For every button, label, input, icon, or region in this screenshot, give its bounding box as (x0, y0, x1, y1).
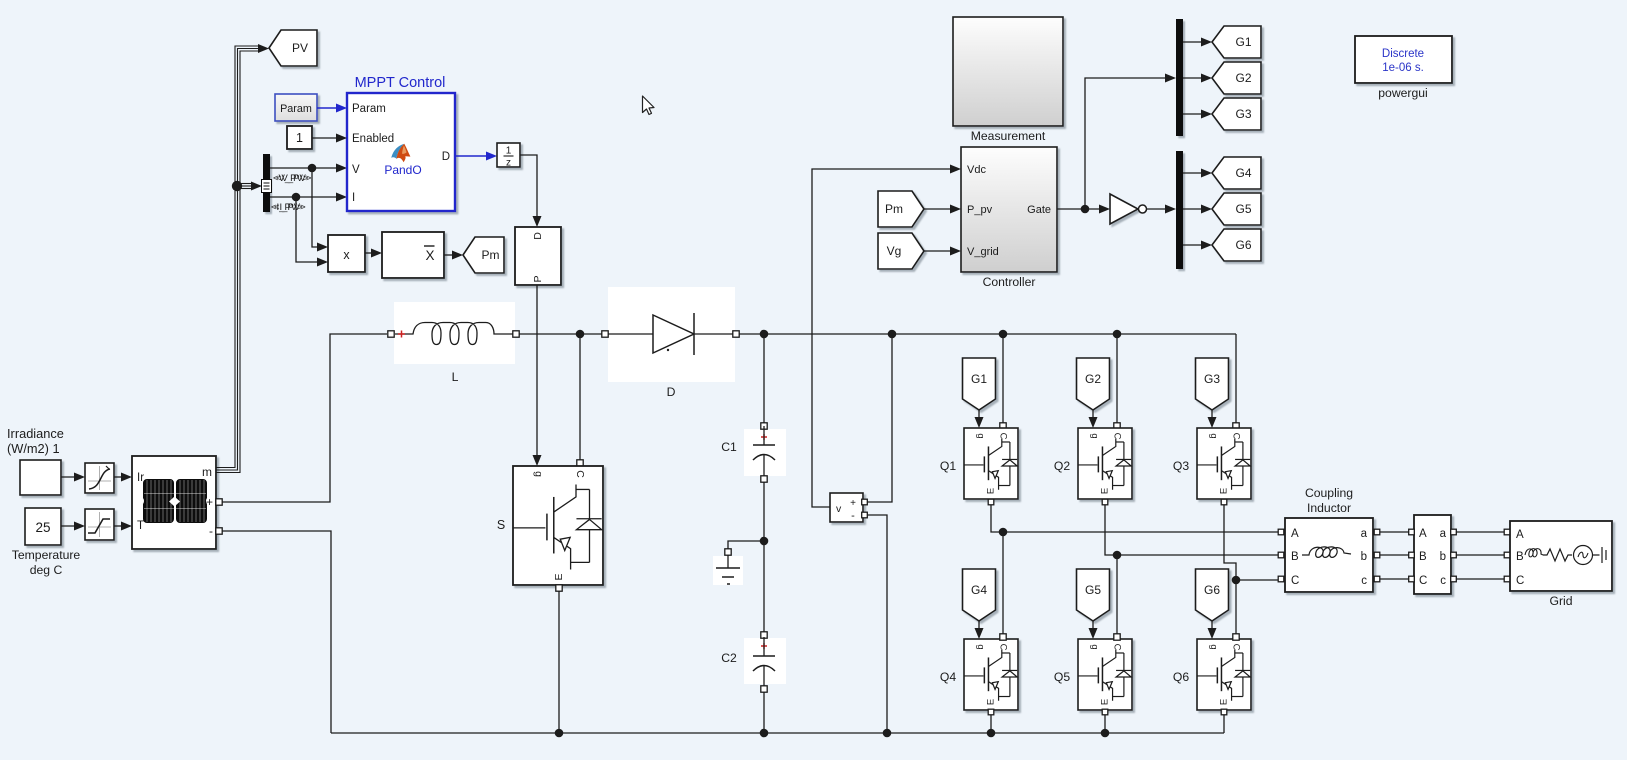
svg-text:E: E (986, 699, 997, 705)
svg-text:+: + (850, 498, 856, 509)
transistor Q4 (964, 639, 1018, 710)
svg-text:1: 1 (296, 131, 303, 145)
mean block (382, 232, 444, 278)
subsystem MPPT Control (347, 93, 455, 211)
wire Q6 E to rail (1223, 715, 1225, 733)
wire DC top rail (739, 333, 1236, 335)
svg-text:C: C (574, 470, 586, 478)
port Q1 E (988, 499, 994, 505)
unit delay 1/z (497, 143, 520, 169)
svg-text:-: - (851, 510, 855, 522)
svg-text:G6: G6 (1235, 238, 1251, 252)
transistor Q6 (1197, 639, 1251, 710)
bus selector (262, 154, 272, 212)
wire (61, 473, 85, 482)
svg-text:G3: G3 (1204, 372, 1220, 386)
wire Q5 E to rail (1104, 715, 1106, 733)
svg-text:MPPT Control: MPPT Control (355, 75, 446, 91)
svg-text:powergui: powergui (1378, 86, 1427, 100)
subsystem Controller (961, 147, 1057, 272)
wire boost E to bottom rail (558, 591, 560, 733)
svg-text:+: + (206, 495, 213, 509)
wire phase A (991, 505, 1278, 532)
goto tag G1 (1212, 26, 1261, 58)
port boost E (556, 585, 562, 591)
wire coupling a to meas A (1380, 531, 1409, 533)
svg-text:c: c (1361, 575, 1367, 587)
svg-text:C: C (998, 433, 1009, 440)
svg-text:C: C (1231, 433, 1242, 440)
wire NOT to lower demux (1147, 205, 1177, 214)
wire gate to upper demux (1085, 74, 1176, 210)
label Q3 (1173, 459, 1189, 473)
svg-text:A: A (1291, 528, 1299, 540)
label MPPT Control (355, 75, 446, 91)
label D (667, 385, 676, 399)
subsystem D P (515, 227, 561, 285)
svg-text:E: E (1219, 488, 1230, 494)
svg-text:P: P (532, 275, 544, 282)
wire D to unit delay (blue) (455, 152, 497, 161)
node bottom Q5 (1101, 729, 1110, 738)
svg-text:25: 25 (35, 520, 50, 535)
svg-text:Vg: Vg (887, 244, 902, 258)
svg-text:Inductor: Inductor (1307, 501, 1351, 515)
wire rail to C1 (763, 334, 765, 423)
wire G2 to gate (1089, 410, 1098, 428)
svg-text:Q2: Q2 (1054, 459, 1070, 473)
svg-text:Measurement: Measurement (971, 129, 1046, 143)
capacitor C2 (744, 632, 786, 692)
svg-text:Pm: Pm (482, 248, 500, 262)
label Q5 (1054, 670, 1070, 684)
label Grid (1549, 594, 1572, 608)
label C1 (721, 440, 737, 454)
label Q2 (1054, 459, 1070, 473)
from tag G4 (963, 569, 996, 621)
node on I wire (292, 193, 301, 202)
constant block Irradiance (20, 460, 61, 495)
wire G6 to gate (1208, 621, 1217, 639)
svg-text:L: L (452, 370, 459, 384)
svg-text:Enabled: Enabled (352, 133, 394, 145)
wire rail to Q1 C (1000, 334, 1006, 429)
from tag G5 (1077, 569, 1110, 621)
svg-text:g: g (975, 433, 986, 438)
svg-text:Pm: Pm (885, 202, 903, 216)
node bottom S (555, 729, 564, 738)
wire vsense output to controller Vdc (812, 165, 961, 508)
svg-text:Q6: Q6 (1173, 670, 1189, 684)
svg-text:g: g (975, 644, 986, 649)
svg-text:deg C: deg C (30, 563, 63, 577)
saturation block 1 (85, 463, 114, 493)
wire V branch to product (312, 168, 328, 252)
wire demux to G4 (1183, 169, 1212, 178)
node rail Q2C (1113, 330, 1122, 339)
transistor Q2 (1078, 428, 1132, 499)
from tag G1 (963, 358, 996, 410)
demux upper (1176, 19, 1183, 136)
svg-text:1: 1 (506, 146, 512, 157)
svg-text:E: E (1219, 699, 1230, 705)
wire G5 to gate (1089, 621, 1098, 639)
svg-text:G3: G3 (1235, 107, 1251, 121)
wire mean to Pm goto (444, 251, 463, 260)
svg-text:PV: PV (292, 41, 308, 55)
svg-text:A: A (1516, 529, 1524, 541)
signal label V_PV (273, 173, 312, 184)
svg-text:Controller: Controller (983, 275, 1036, 289)
svg-text:x: x (343, 248, 350, 262)
node rail to vsense (888, 330, 897, 339)
node bottom vsense (883, 729, 892, 738)
wire G1 to gate (975, 410, 984, 428)
svg-text:g: g (1089, 433, 1100, 438)
wire product to mean (365, 249, 382, 258)
node bottom Q4 (987, 729, 996, 738)
wire rail to Q2 C (1114, 334, 1120, 429)
wire PV minus down to bottom rail (222, 531, 331, 733)
ground (713, 549, 743, 585)
product block x (328, 235, 365, 272)
wire Gate output (1057, 205, 1110, 214)
transistor Q3 (1197, 428, 1251, 499)
wire demux to G1 (1183, 38, 1212, 47)
coupling inductor block (1278, 518, 1380, 592)
port Q5 E (1102, 709, 1108, 715)
svg-text:Grid: Grid (1549, 594, 1572, 608)
svg-text:V_grid: V_grid (967, 246, 999, 258)
svg-text:G4: G4 (1235, 166, 1251, 180)
from tag G2 (1077, 358, 1110, 410)
port Q6 E (1221, 709, 1227, 715)
svg-text:Q1: Q1 (940, 459, 956, 473)
port PV minus (216, 528, 222, 534)
node top rail to C1 (760, 330, 769, 339)
svg-text:z: z (506, 158, 511, 169)
svg-text:T: T (137, 520, 144, 532)
svg-text:Q5: Q5 (1054, 670, 1070, 684)
node gate (1081, 205, 1090, 214)
svg-text:Temperature: Temperature (12, 548, 81, 562)
svg-text:G5: G5 (1085, 583, 1101, 597)
from tag G6 (1196, 569, 1229, 621)
svg-text:(W/m2) 1: (W/m2) 1 (7, 441, 60, 456)
wire midpoint to ground (728, 541, 764, 549)
svg-text:D: D (532, 232, 544, 240)
label L (452, 370, 459, 384)
svg-text:a: a (1440, 528, 1447, 540)
wire demux to G5 (1183, 205, 1212, 214)
wire C2 to bottom rail (763, 692, 765, 733)
from tag Pm (878, 191, 924, 227)
svg-text:C1: C1 (721, 440, 737, 454)
mouse cursor (643, 96, 655, 115)
svg-text:C: C (998, 644, 1009, 651)
wire G3 to gate (1208, 410, 1217, 428)
port Q4 E (988, 709, 994, 715)
wire Pm to P_pv (924, 205, 961, 214)
wire I_PV to MPPT I input (270, 193, 347, 202)
wire PV plus to inductor (222, 334, 387, 502)
svg-text:C: C (1291, 575, 1299, 587)
svg-text:A: A (1419, 528, 1427, 540)
wire phase B (1105, 505, 1278, 555)
voltage measurement v (830, 493, 867, 522)
svg-text:S: S (497, 518, 505, 532)
goto tag G2 (1212, 62, 1261, 94)
svg-text:C: C (1231, 644, 1242, 651)
svg-text:C: C (1516, 575, 1524, 587)
wire phase A to Q4 C (1000, 532, 1006, 640)
svg-text:b: b (1440, 551, 1446, 563)
svg-text:D: D (442, 151, 450, 163)
wire phase B to Q5 C (1114, 555, 1120, 640)
wire meas b to grid B (1456, 554, 1504, 556)
node bottom C2 (760, 729, 769, 738)
svg-text:X: X (425, 248, 434, 263)
svg-text:g: g (1089, 644, 1100, 649)
wire (61, 522, 85, 531)
node phase B (1113, 551, 1122, 560)
svg-text:g: g (1208, 644, 1219, 649)
svg-text:a: a (1361, 528, 1368, 540)
wire P to boost gate (533, 285, 542, 466)
goto tag G6 (1212, 229, 1261, 261)
label Temperature deg C (12, 548, 81, 577)
svg-text:G1: G1 (1235, 35, 1251, 49)
port PV plus (216, 499, 222, 505)
diode D (602, 287, 739, 382)
svg-text:B: B (1516, 551, 1524, 563)
svg-text:Irradiance: Irradiance (7, 426, 64, 441)
svg-text:Gate: Gate (1027, 204, 1051, 216)
wire (114, 473, 132, 482)
from tag Vg (878, 233, 924, 269)
wire node to boost C (577, 334, 583, 466)
svg-text:G6: G6 (1204, 583, 1220, 597)
svg-text:<I_PV>: <I_PV> (274, 202, 306, 213)
wire rail to Q3 C (1233, 334, 1239, 429)
svg-text:C2: C2 (721, 651, 737, 665)
svg-text:G4: G4 (971, 583, 987, 597)
PV array block (132, 456, 216, 549)
node phase A (999, 528, 1008, 537)
wire meas a to grid A (1456, 531, 1504, 533)
svg-text:g: g (1208, 433, 1219, 438)
svg-text:E: E (986, 488, 997, 494)
svg-text:v: v (836, 503, 842, 515)
demux lower (1176, 151, 1183, 269)
svg-text:E: E (553, 573, 565, 580)
svg-text:b: b (1361, 551, 1367, 563)
goto tag Pm (463, 237, 504, 273)
wire meas c to grid C (1456, 578, 1504, 580)
svg-text:D: D (667, 385, 676, 399)
svg-text:C: C (1419, 575, 1427, 587)
wire L to diode (519, 333, 602, 335)
label Irradiance (W/m2) 1 (7, 426, 64, 456)
three-phase measurement block (1409, 515, 1457, 594)
node boost collector (576, 330, 585, 339)
powergui block (1355, 36, 1452, 83)
wire demux to G3 (1183, 110, 1212, 119)
wire coupling b to meas B (1380, 554, 1409, 556)
wire Vg to V_grid (924, 247, 961, 256)
svg-text:1e-06 s.: 1e-06 s. (1382, 62, 1424, 74)
label Coupling Inductor (1305, 486, 1353, 515)
goto tag G4 (1212, 157, 1261, 189)
subsystem Measurement (953, 17, 1063, 126)
wire coupling c to meas C (1380, 578, 1409, 580)
constant block 25 (25, 508, 61, 545)
svg-text:Vdc: Vdc (967, 164, 986, 176)
wire Q4 E to rail (990, 715, 992, 733)
svg-text:C: C (1112, 433, 1123, 440)
wire demux to G6 (1183, 241, 1212, 250)
label C2 (721, 651, 737, 665)
svg-text:<V_PV>: <V_PV> (276, 173, 312, 184)
transistor Q5 (1078, 639, 1132, 710)
inductor L (388, 302, 519, 364)
node DC midpoint (760, 537, 769, 546)
from tag G3 (1196, 358, 1229, 410)
svg-text:m: m (202, 465, 212, 479)
saturation block 2 (85, 509, 114, 540)
signal label I_PV (271, 202, 306, 213)
bus wire junction to bus selector (239, 182, 262, 191)
wire I branch to product (296, 197, 328, 267)
svg-text:B: B (1291, 551, 1299, 563)
wire rail to vsense plus (866, 334, 892, 502)
svg-text:Coupling: Coupling (1305, 486, 1353, 500)
svg-text:g: g (533, 471, 545, 477)
svg-text:Param: Param (280, 103, 312, 115)
port Q3 E (1221, 499, 1227, 505)
wire 1 to Enabled (312, 134, 347, 143)
wire G4 to gate (975, 621, 984, 639)
svg-text:PandO: PandO (384, 163, 421, 177)
svg-text:Q4: Q4 (940, 670, 956, 684)
svg-text:G2: G2 (1235, 71, 1251, 85)
label S (497, 518, 505, 532)
wire Param to MPPT (blue) (317, 104, 347, 113)
svg-text:-: - (209, 524, 213, 538)
wire (114, 522, 132, 531)
wire DC bottom rail (331, 732, 1224, 734)
svg-text:I: I (352, 192, 355, 204)
svg-text:C: C (1112, 644, 1123, 651)
constant block 1 (287, 126, 312, 149)
node bus junction (232, 181, 242, 191)
goto tag PV (269, 30, 317, 66)
wire phase C (1224, 505, 1278, 580)
constant block Param (275, 94, 317, 121)
label Q4 (940, 670, 956, 684)
label Controller (983, 275, 1036, 289)
node phase C (1232, 576, 1241, 585)
svg-text:E: E (1100, 488, 1111, 494)
svg-text:c: c (1440, 575, 1446, 587)
svg-text:G2: G2 (1085, 372, 1101, 386)
svg-text:B: B (1419, 551, 1427, 563)
svg-text:Q3: Q3 (1173, 459, 1189, 473)
logic NOT gate (1110, 194, 1147, 224)
transistor Q1 (964, 428, 1018, 499)
grid block (1504, 521, 1612, 591)
wire V_PV to MPPT V input (270, 164, 347, 173)
wire unit delay to D latch (520, 155, 542, 227)
node rail Q1C (999, 330, 1008, 339)
node on V wire (308, 164, 317, 173)
wire phase C to Q6 C (1233, 580, 1239, 640)
goto tag G5 (1212, 193, 1261, 225)
wire vsense minus to bottom rail (866, 515, 887, 733)
IGBT S (513, 466, 603, 585)
wire demux to G2 (1183, 74, 1212, 83)
svg-text:P_pv: P_pv (967, 204, 993, 216)
label powergui (1378, 86, 1427, 100)
bus wire m to PV tag (216, 44, 269, 473)
capacitor C1 (744, 423, 786, 482)
wire C1 to midpoint (763, 482, 765, 633)
svg-text:E: E (1100, 699, 1111, 705)
svg-text:V: V (352, 164, 360, 176)
svg-text:G5: G5 (1235, 202, 1251, 216)
svg-text:Discrete: Discrete (1382, 48, 1424, 60)
svg-text:Param: Param (352, 103, 386, 115)
svg-text:G1: G1 (971, 372, 987, 386)
label Measurement (971, 129, 1046, 143)
label Q6 (1173, 670, 1189, 684)
port Q2 E (1102, 499, 1108, 505)
label Q1 (940, 459, 956, 473)
goto tag G3 (1212, 98, 1261, 130)
